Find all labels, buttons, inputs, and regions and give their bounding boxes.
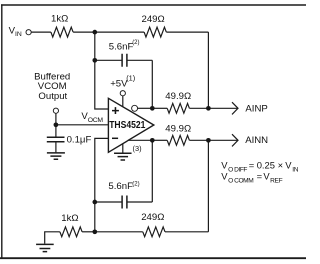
svg-text:(2): (2) (132, 181, 139, 187)
AINP node dot (206, 106, 211, 111)
wire C1 vertical to OUT- node (151, 60, 153, 108)
VOCM junction dot (54, 122, 59, 127)
wire R3 to AINP node (189, 107, 208, 109)
wire junction down to +IN (95, 60, 109, 109)
svg-text:IN: IN (292, 167, 299, 174)
wire OUT- node to R3 (152, 107, 167, 109)
label minus input (112, 137, 118, 139)
svg-text:×: × (278, 159, 283, 170)
AINN arrowhead (232, 134, 238, 146)
svg-text:1kΩ: 1kΩ (61, 213, 78, 224)
top cap junction dot (92, 58, 97, 63)
op-amp U1 triangle (108, 98, 153, 152)
svg-text:249Ω: 249Ω (142, 14, 165, 25)
wire OUT+ node to R4 (152, 139, 167, 141)
wire node A to R2 (95, 31, 144, 33)
resistor R2 249 top (144, 27, 166, 37)
wire C2 junction down to node B (94, 202, 96, 232)
resistor R3 49.9 top (167, 103, 189, 113)
OUT- bubble (132, 105, 138, 111)
svg-text:49.9Ω: 49.9Ω (165, 91, 191, 102)
wire R6 to bottom feedback corner (165, 231, 208, 233)
bottom cap junction dot (92, 200, 97, 205)
VIN terminal circle (26, 30, 31, 35)
wire C2 to left junction (95, 201, 122, 203)
capacitor C2 5.6nF bottom plates (122, 196, 127, 209)
border frame left (1, 4, 3, 259)
wire OUT+ to node (128, 139, 152, 141)
wire C1 junction to C1 (95, 59, 122, 61)
resistor R5 1k bottom (60, 227, 82, 237)
resistor R1 1k top (51, 27, 73, 37)
svg-text:AINP: AINP (245, 104, 267, 115)
op-amp ground stem (122, 144, 124, 153)
wire C2 right lead (127, 201, 152, 203)
op-amp ground bars (114, 153, 132, 160)
border frame bottom (0, 257, 306, 259)
svg-text:AINN: AINN (245, 135, 268, 146)
svg-text:0.1μF: 0.1μF (67, 134, 92, 145)
capacitor C1 5.6nF top plates (122, 54, 127, 67)
svg-text:0.25: 0.25 (257, 159, 275, 170)
VCOM terminal circle (53, 108, 58, 113)
label plus input (112, 107, 119, 114)
wire OUT+ node down to C2 (151, 140, 153, 202)
svg-text:(3): (3) (133, 144, 142, 153)
+5V supply stem (122, 96, 124, 107)
wire C1 to corner (127, 59, 152, 61)
svg-text:(2): (2) (132, 40, 139, 46)
svg-text:=: = (257, 170, 263, 181)
OUT- node dot (150, 106, 155, 111)
node A junction dot (92, 30, 97, 35)
svg-text:5.6nF: 5.6nF (109, 42, 134, 53)
svg-text:Output: Output (38, 91, 67, 102)
border frame top (1, 4, 306, 6)
wire R1 to node A (73, 31, 95, 33)
wire R2 to top feedback corner (166, 31, 208, 33)
resistor R4 49.9 bottom (167, 135, 189, 145)
svg-text:THS4521: THS4521 (109, 120, 145, 131)
wire C3 to ground (55, 142, 57, 153)
wire AINP arrow shaft (208, 107, 238, 109)
wire R5 to ground elbow (45, 232, 60, 244)
wire node A down to cap C1 junction (94, 32, 96, 60)
wire -IN elbow (95, 138, 109, 202)
wire R4 to AINN node (189, 139, 208, 141)
capacitor C3 0.1uF plates (47, 137, 65, 142)
svg-text:REF: REF (270, 178, 283, 185)
bottom-left ground bars (36, 244, 54, 251)
svg-text:=: = (249, 159, 255, 170)
wire bottom feedback vertical (207, 140, 209, 232)
wire AINN arrow shaft (208, 139, 238, 141)
wire VOCM to op-amp (56, 124, 109, 126)
AINP arrowhead (232, 102, 238, 114)
svg-text:249Ω: 249Ω (141, 212, 164, 223)
+5V supply terminal circle (120, 91, 125, 96)
OUT+ node dot (150, 138, 155, 143)
svg-text:1kΩ: 1kΩ (51, 14, 68, 25)
wire node B left to R5 (82, 231, 95, 233)
resistor R6 249 bottom (143, 227, 165, 237)
wire OUT- to node (138, 107, 153, 109)
AINN node dot (206, 138, 211, 143)
node B junction dot (92, 229, 97, 234)
wire top feedback vertical (207, 32, 209, 108)
VCOM ground bars (47, 153, 65, 159)
svg-text:O DIFF: O DIFF (228, 167, 247, 174)
svg-text:5.6nF: 5.6nF (108, 181, 133, 192)
svg-text:O COMM: O COMM (228, 178, 253, 185)
wire node B right to R6 (95, 231, 143, 233)
wire VCOM terminal down (55, 113, 57, 137)
svg-text:49.9Ω: 49.9Ω (165, 123, 191, 134)
svg-text:(1): (1) (126, 74, 135, 83)
wire VIN terminal to R1 (31, 31, 51, 33)
